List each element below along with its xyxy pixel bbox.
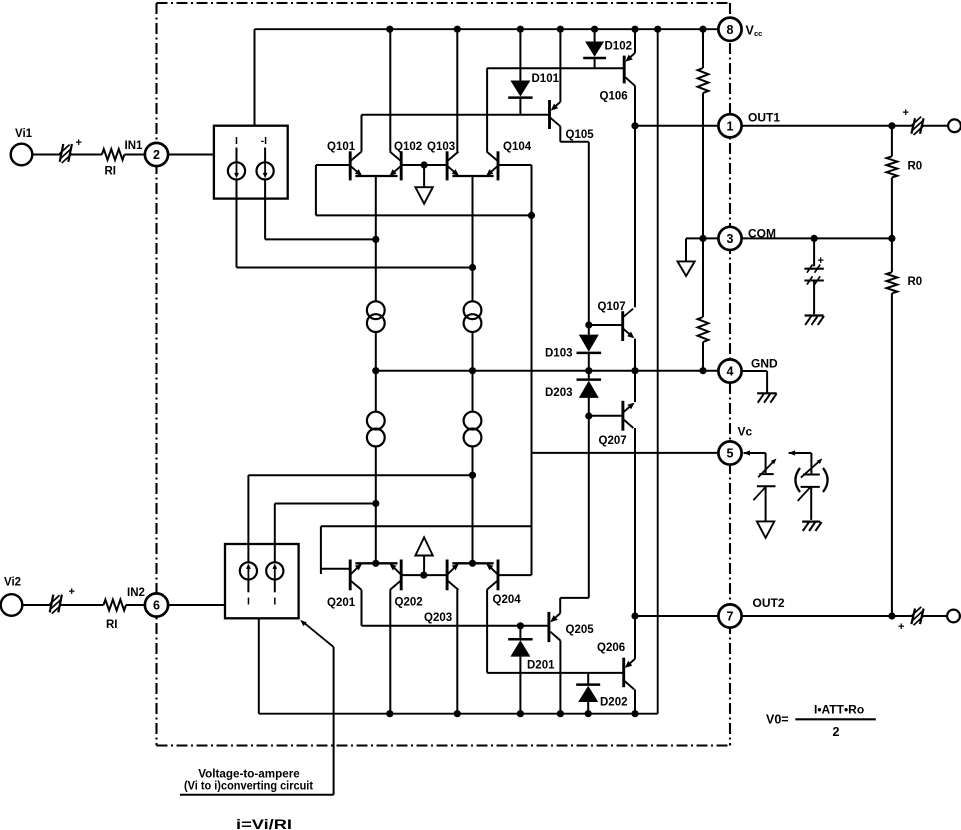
svg-text:D202: D202 xyxy=(600,697,628,709)
svg-text:3: 3 xyxy=(727,232,734,246)
svg-text:1: 1 xyxy=(727,119,734,133)
svg-text:4: 4 xyxy=(727,365,734,379)
svg-text:Q204: Q204 xyxy=(493,594,522,606)
svg-text:R0: R0 xyxy=(908,161,923,173)
svg-text:D101: D101 xyxy=(532,73,560,85)
svg-text:D201: D201 xyxy=(527,660,555,672)
svg-text:Q202: Q202 xyxy=(395,597,423,609)
svg-text:+: + xyxy=(69,586,75,598)
svg-text:D203: D203 xyxy=(545,387,573,399)
svg-text:Q105: Q105 xyxy=(566,129,595,141)
svg-text:I: I xyxy=(235,135,238,147)
svg-text:D102: D102 xyxy=(605,41,633,53)
svg-text:+: + xyxy=(818,255,824,267)
svg-text:D103: D103 xyxy=(545,348,573,360)
svg-text:Vi1: Vi1 xyxy=(15,128,33,140)
svg-text:I•ATT•Ro: I•ATT•Ro xyxy=(814,703,864,717)
svg-text:Q101: Q101 xyxy=(327,141,356,153)
svg-text:Vc: Vc xyxy=(738,425,753,439)
svg-text:I: I xyxy=(273,596,276,608)
svg-text:Q103: Q103 xyxy=(427,141,455,153)
svg-text:2: 2 xyxy=(833,725,840,739)
svg-text:+: + xyxy=(898,621,904,633)
svg-text:+: + xyxy=(76,137,82,149)
svg-text:Q106: Q106 xyxy=(600,91,628,103)
svg-text:-I: -I xyxy=(261,135,267,147)
svg-text:R0: R0 xyxy=(908,276,923,288)
svg-text:6: 6 xyxy=(153,599,160,613)
svg-text:(Vi to i)converting circuit: (Vi to i)converting circuit xyxy=(184,780,313,793)
svg-text:GND: GND xyxy=(751,357,778,371)
svg-text:Q203: Q203 xyxy=(424,612,452,624)
svg-text:7: 7 xyxy=(727,610,734,624)
svg-text:Q104: Q104 xyxy=(503,141,532,153)
svg-text:5: 5 xyxy=(727,447,734,461)
svg-text:Q206: Q206 xyxy=(597,642,625,654)
svg-text:OUT2: OUT2 xyxy=(753,596,785,610)
svg-text:+: + xyxy=(903,107,909,119)
svg-text:I: I xyxy=(247,596,250,608)
svg-text:RI: RI xyxy=(105,166,117,178)
svg-text:cc: cc xyxy=(754,29,762,38)
svg-text:IN2: IN2 xyxy=(127,587,145,599)
svg-text:i=Vi/RI: i=Vi/RI xyxy=(236,817,292,830)
svg-text:Q107: Q107 xyxy=(598,301,626,313)
svg-text:OUT1: OUT1 xyxy=(748,111,780,125)
svg-text:8: 8 xyxy=(727,23,734,37)
svg-text:V0=: V0= xyxy=(766,713,789,727)
svg-text:RI: RI xyxy=(106,619,118,631)
svg-text:Q205: Q205 xyxy=(566,624,595,636)
svg-text:Q207: Q207 xyxy=(599,435,627,447)
svg-text:2: 2 xyxy=(153,148,160,162)
svg-text:Q201: Q201 xyxy=(327,597,356,609)
svg-text:Q102: Q102 xyxy=(394,141,422,153)
svg-text:IN1: IN1 xyxy=(125,140,144,152)
svg-text:Vi2: Vi2 xyxy=(4,577,21,589)
